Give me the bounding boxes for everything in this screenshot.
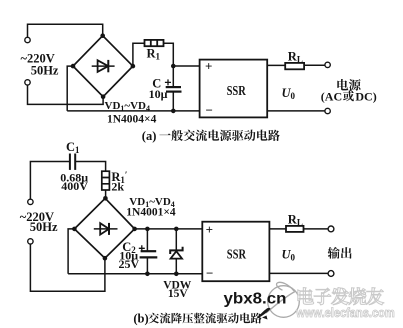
capacitor C2 10u (b) bbox=[139, 229, 158, 274]
op-amp SSR box (b) bbox=[202, 222, 269, 282]
label output (b) bbox=[328, 247, 352, 259]
node bridge left (b) bbox=[72, 227, 77, 232]
terminal (b) output bottom bbox=[328, 271, 334, 277]
diode symbol inside bridge (b) bbox=[94, 223, 118, 235]
svg-text:C1: C1 bbox=[66, 140, 80, 155]
svg-text:50Hz: 50Hz bbox=[30, 220, 58, 234]
capacitor C 10u (a) bbox=[165, 79, 182, 111]
bridge rectifier VD1-VD4 (a) diamond bbox=[73, 36, 133, 97]
wire negative rail (b) bbox=[68, 273, 202, 275]
capacitor C1 0.68u (b) bbox=[70, 154, 75, 170]
svg-text:U0: U0 bbox=[282, 86, 296, 101]
node junction zener bottom (b) bbox=[174, 272, 179, 277]
terminal (a) output bottom bbox=[325, 108, 330, 113]
node bridge right (b) bbox=[132, 227, 137, 232]
svg-text:(AC: (AC bbox=[321, 89, 342, 103]
svg-text:1N4004×4: 1N4004×4 bbox=[107, 114, 157, 126]
resistor RL (b) bbox=[286, 226, 304, 232]
svg-text:RL: RL bbox=[288, 49, 303, 64]
wire bbox=[267, 110, 325, 112]
terminal (b) AC input 1 bbox=[28, 199, 33, 204]
wire bbox=[30, 162, 70, 200]
watermark dark tail glyph bbox=[257, 308, 271, 319]
wire bbox=[304, 64, 325, 66]
terminal (b) output top bbox=[328, 226, 334, 232]
diode symbol inside bridge (a) bbox=[92, 60, 115, 72]
wire negative rail (a) bbox=[67, 110, 199, 112]
svg-text:15V: 15V bbox=[168, 288, 189, 300]
node junction zener top (b) bbox=[174, 227, 179, 232]
node bridge bottom (a) bbox=[101, 94, 106, 99]
node junction (a) plus bbox=[171, 64, 176, 69]
svg-text:−: − bbox=[206, 103, 213, 118]
wire bbox=[173, 65, 199, 67]
wire bbox=[164, 43, 174, 86]
node bridge bottom (b) bbox=[103, 256, 108, 261]
wire bbox=[28, 85, 104, 104]
op-amp SSR box (a) bbox=[200, 60, 268, 118]
svg-text:25V: 25V bbox=[119, 257, 140, 271]
terminal (b) AC input 2 bbox=[28, 239, 33, 244]
node junction (a) minus bbox=[171, 109, 176, 114]
node bridge left (a) bbox=[71, 64, 76, 69]
wire bbox=[105, 190, 107, 198]
wire bbox=[67, 66, 73, 111]
svg-text:−: − bbox=[206, 265, 213, 280]
terminal (a) AC input 2 bbox=[25, 80, 30, 85]
wire bbox=[75, 162, 105, 172]
svg-text:(b): (b) bbox=[133, 311, 148, 325]
wire bbox=[269, 272, 328, 274]
svg-text:400V: 400V bbox=[61, 179, 88, 193]
bridge rectifier VD1-VD4 (b) diamond bbox=[74, 198, 134, 258]
resistor RL (a) bbox=[285, 63, 304, 69]
svg-text:U0: U0 bbox=[282, 248, 296, 263]
svg-text:10μ: 10μ bbox=[149, 87, 168, 101]
terminal (a) output top bbox=[325, 62, 330, 67]
wire bbox=[133, 43, 145, 66]
watermark brand name bbox=[298, 288, 384, 305]
node bridge top (a) bbox=[100, 33, 105, 38]
svg-text:50Hz: 50Hz bbox=[31, 64, 59, 78]
svg-text:SSR: SSR bbox=[227, 247, 246, 262]
svg-text:SSR: SSR bbox=[227, 83, 246, 98]
svg-text:R1: R1 bbox=[147, 47, 161, 62]
wire bbox=[304, 228, 329, 230]
svg-text:RL: RL bbox=[288, 212, 303, 227]
node bridge top (b) bbox=[103, 196, 108, 201]
resistor R1p (b) bbox=[102, 171, 110, 190]
wire bbox=[267, 64, 285, 66]
wire positive rail (b) bbox=[135, 228, 203, 230]
svg-text:+: + bbox=[205, 59, 212, 74]
svg-text:www.elecfans.com: www.elecfans.com bbox=[295, 305, 394, 320]
wire bbox=[28, 24, 103, 37]
svg-text:1N4001×4: 1N4001×4 bbox=[126, 207, 176, 219]
node junction C2 top (b) bbox=[145, 227, 150, 232]
zener diode VDW 15V (b) bbox=[170, 229, 182, 274]
terminal (a) AC input 1 bbox=[25, 37, 30, 42]
svg-text:ybx8.cn: ybx8.cn bbox=[224, 290, 287, 307]
node junction C2 bottom (b) bbox=[145, 272, 150, 277]
svg-text:DC): DC) bbox=[355, 89, 376, 103]
wire bbox=[68, 229, 74, 274]
label power-source (a) bbox=[337, 79, 360, 91]
wire bbox=[30, 244, 105, 291]
node bridge right (a) bbox=[131, 64, 136, 69]
svg-text:(a): (a) bbox=[142, 129, 157, 143]
watermark logo circle bbox=[266, 282, 299, 317]
svg-text:2k: 2k bbox=[111, 180, 124, 194]
svg-text:+: + bbox=[206, 222, 213, 237]
wire bbox=[269, 228, 286, 230]
resistor R1 (a) bbox=[145, 40, 164, 46]
